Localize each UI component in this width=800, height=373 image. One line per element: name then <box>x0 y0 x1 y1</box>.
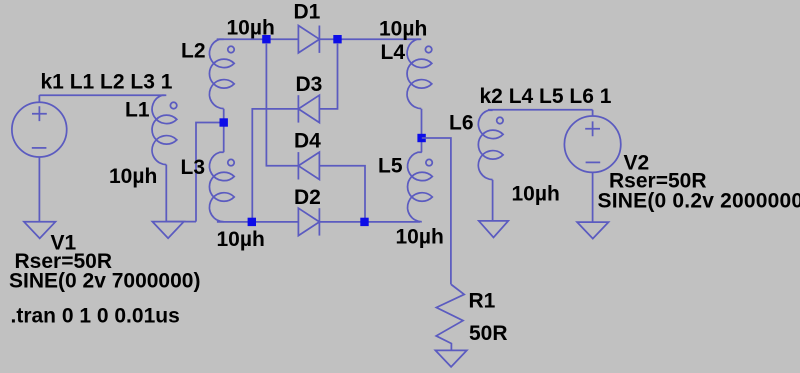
svg-text:k1 L1 L2 L3 1: k1 L1 L2 L3 1 <box>41 71 173 94</box>
ground under L6 <box>479 221 508 238</box>
wire L4 bottom to tap J2 and L5 <box>421 109 423 153</box>
svg-text:SINE(0 0.2v 20000000): SINE(0 0.2v 20000000) <box>598 190 800 213</box>
svg-text:10µh: 10µh <box>109 165 157 188</box>
svg-text:L4: L4 <box>381 41 406 64</box>
svg-text:D1: D1 <box>294 1 321 24</box>
inductor L4 <box>407 39 432 108</box>
junction J1 tap <box>220 118 228 126</box>
junction node D <box>248 218 256 226</box>
resistor R1 <box>436 285 464 351</box>
junction node B <box>333 35 341 43</box>
junction J2 tap <box>417 134 425 142</box>
svg-text:L5: L5 <box>378 154 403 177</box>
svg-text:L1: L1 <box>125 99 150 122</box>
diode D3 <box>298 95 319 122</box>
svg-text:.tran 0 1 0 0.01us: .tran 0 1 0 0.01us <box>11 304 180 327</box>
svg-text:D3: D3 <box>296 73 323 96</box>
wire D3 right up to node B <box>319 43 337 109</box>
wire V1 top to L1 <box>39 94 164 96</box>
inductor L2 <box>209 39 234 108</box>
svg-text:R1: R1 <box>469 290 496 313</box>
ground under V2 <box>577 222 608 239</box>
wire node A down to D4 <box>266 43 298 166</box>
inductor L5 <box>408 152 433 221</box>
svg-text:10µh: 10µh <box>379 17 427 40</box>
wire top rail left (L2 to D1) <box>217 38 299 40</box>
voltage source V2 <box>564 110 620 222</box>
svg-text:50R: 50R <box>469 322 508 345</box>
ground under V1 <box>24 222 55 239</box>
wire L6 bottom to ground <box>492 180 494 221</box>
wire center tap L2/L3 to ground <box>196 109 224 222</box>
diode D1 <box>298 26 319 53</box>
inductor L6 <box>478 110 503 179</box>
wire bottom rail right (D2 to L5) <box>319 221 420 223</box>
ground under R1 <box>435 350 466 367</box>
ground under L1 <box>152 222 183 239</box>
junction node A <box>262 35 270 43</box>
wire bottom rail left (L3 to D2) <box>217 221 299 223</box>
diode D4 <box>298 152 319 179</box>
svg-text:L2: L2 <box>181 40 206 63</box>
inductor L1 <box>152 95 177 164</box>
svg-text:SINE(0 2v 7000000): SINE(0 2v 7000000) <box>9 270 200 293</box>
wire L6 top to V2 <box>488 109 593 111</box>
wire tap J2 to R1 branch <box>422 138 451 285</box>
junction node C <box>360 218 368 226</box>
voltage source V1 <box>12 95 67 222</box>
svg-text:10µh: 10µh <box>396 226 444 249</box>
svg-text:D4: D4 <box>294 130 321 153</box>
svg-text:L6: L6 <box>449 112 474 135</box>
wire L1 bottom to ground <box>166 165 196 222</box>
svg-text:10µh: 10µh <box>217 228 265 251</box>
inductor L3 <box>209 152 234 221</box>
diode D2 <box>298 208 319 235</box>
wire top rail right (D1 to L4) <box>319 38 419 40</box>
wire D3 left + down to bottom rail <box>252 109 298 222</box>
svg-text:k2 L4 L5 L6 1: k2 L4 L5 L6 1 <box>480 85 612 108</box>
svg-text:D2: D2 <box>294 186 321 209</box>
svg-text:L3: L3 <box>181 156 206 179</box>
wire D4 right down to bottom rail <box>319 166 365 222</box>
svg-text:10µh: 10µh <box>512 183 560 206</box>
